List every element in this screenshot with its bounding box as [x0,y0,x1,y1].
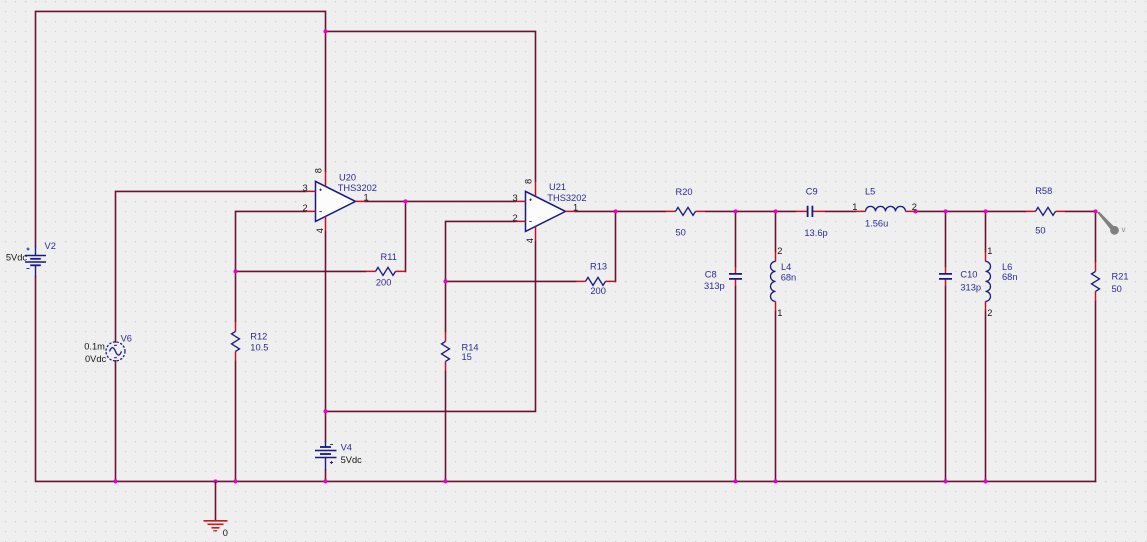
node junction U20 pin2 [233,269,237,273]
svg-text:4: 4 [525,238,535,243]
wire C8 branch [735,211,737,481]
wire L5 to R58 [916,210,1026,212]
svg-text:0Vdc: 0Vdc [85,354,107,364]
svg-text:68n: 68n [781,273,797,283]
source V2 [25,247,46,277]
svg-text:3: 3 [513,193,518,203]
resistor R12 [235,321,237,361]
wire U20 out to U21 in [366,200,516,202]
inductor L6 [985,251,987,311]
wire L4 branch [775,211,777,481]
resistor R13 [576,280,616,282]
wire U20 pin2 branch [236,211,306,481]
node junction U20 out [403,199,407,203]
wire R21 bottom [1095,301,1097,481]
svg-text:1: 1 [777,308,782,318]
svg-text:4: 4 [315,228,325,233]
svg-text:1: 1 [573,203,578,213]
svg-text:L5: L5 [865,186,875,196]
svg-text:1: 1 [364,193,369,203]
svg-text:R13: R13 [590,262,607,272]
node junction rail gnd [213,479,217,483]
svg-text:50: 50 [676,227,686,237]
svg-text:2: 2 [303,203,308,213]
svg-text:2: 2 [912,202,917,212]
node junction signal L4 [773,209,777,213]
svg-text:R12: R12 [250,332,267,342]
svg-text:C10: C10 [960,270,977,280]
node junction out [1093,209,1097,213]
wire V6 branch (U20 pin3) [116,191,306,481]
node junction rail R12 [233,479,237,483]
wire U21 out row [576,210,666,212]
svg-text:1: 1 [852,202,857,212]
svg-text:3: 3 [303,183,308,193]
svg-text:50: 50 [1112,284,1122,294]
node junction rail R14 [443,479,447,483]
inductor L4 [775,251,777,311]
svg-text:THS3202: THS3202 [547,193,586,203]
source V6 [106,342,125,361]
resistor R21 [1095,261,1097,301]
svg-text:0: 0 [223,528,228,538]
node junction signal C10 [943,209,947,213]
resistor R11 [366,270,406,272]
resistor R58 [1026,210,1066,212]
wire C9 to L5 [826,210,856,212]
svg-text:2: 2 [777,246,782,256]
wire feedback row R11 [236,201,406,271]
resistor R14 [445,331,447,371]
wire top rail V+ [36,11,326,246]
wire C10 branch [945,211,947,481]
node junction rail L6 [983,479,987,483]
svg-text:V2: V2 [45,241,56,251]
capacitor C9 [796,210,826,212]
svg-text:8: 8 [314,168,324,173]
wire bottom ground rail [36,277,1096,482]
node junction U21 out [613,209,617,213]
svg-text:68n: 68n [1002,272,1018,282]
source V4 [315,441,337,470]
svg-text:R11: R11 [381,252,397,262]
svg-text:313p: 313p [704,281,725,291]
inductor L5 [856,210,916,212]
svg-text:L4: L4 [781,262,791,272]
svg-text:V4: V4 [341,443,352,453]
svg-text:50: 50 [1035,226,1045,236]
svg-text:15: 15 [462,352,472,362]
ground 0 [204,481,228,530]
wire top rail 2 to U21 pin8 [326,31,536,181]
svg-text:10.5: 10.5 [250,343,268,353]
svg-text:0.1m: 0.1m [84,342,105,352]
node junction rail V6 [113,479,117,483]
svg-text:5Vdc: 5Vdc [341,455,363,465]
svg-text:V6: V6 [121,333,132,343]
svg-text:R21: R21 [1112,272,1129,282]
node junction rail C8 [733,479,737,483]
wire V- rail to U21 pin4 [326,241,536,411]
probe marker V [1097,212,1119,235]
svg-text:L6: L6 [1002,262,1012,272]
svg-text:200: 200 [590,286,606,296]
capacitor C8 [735,266,737,286]
wire R58 to out node [1066,211,1096,261]
svg-text:U21: U21 [549,182,566,192]
svg-text:1: 1 [987,246,992,256]
svg-text:C9: C9 [806,186,818,196]
op-amp U20 [316,181,356,221]
node junction rail L4 [773,479,777,483]
node junction signal L6 [983,209,987,213]
wire U20 pin4 down [325,231,327,481]
wire feedback row R13 [446,211,616,281]
node junction top rail [323,29,327,33]
op-amp U21 [526,191,566,231]
svg-text:THS3202: THS3202 [338,183,377,193]
wire L6 branch [985,211,987,481]
node junction V4 top [323,409,327,413]
svg-text:1.56u: 1.56u [865,218,888,228]
svg-text:2: 2 [987,308,992,318]
node junction rail C10 [943,479,947,483]
node junction U21 pin2 [443,279,447,283]
svg-text:8: 8 [524,179,534,184]
svg-text:2: 2 [513,213,518,223]
svg-text:v: v [1122,225,1126,234]
svg-text:313p: 313p [960,282,981,292]
capacitor C10 [945,266,947,286]
svg-text:U20: U20 [339,172,356,182]
wire U21 pin2 branch [446,221,516,481]
svg-text:R58: R58 [1035,186,1052,196]
wire R20 to C9 [706,210,796,212]
node junction L5 pin2 [913,209,917,213]
svg-text:R20: R20 [676,187,693,197]
svg-text:200: 200 [376,277,392,287]
svg-text:5Vdc: 5Vdc [6,253,28,263]
resistor R20 [666,210,706,212]
svg-text:C8: C8 [705,269,717,279]
node junction rail V4 [323,479,327,483]
svg-text:13.6p: 13.6p [804,228,827,238]
node junction signal C8 [733,209,737,213]
